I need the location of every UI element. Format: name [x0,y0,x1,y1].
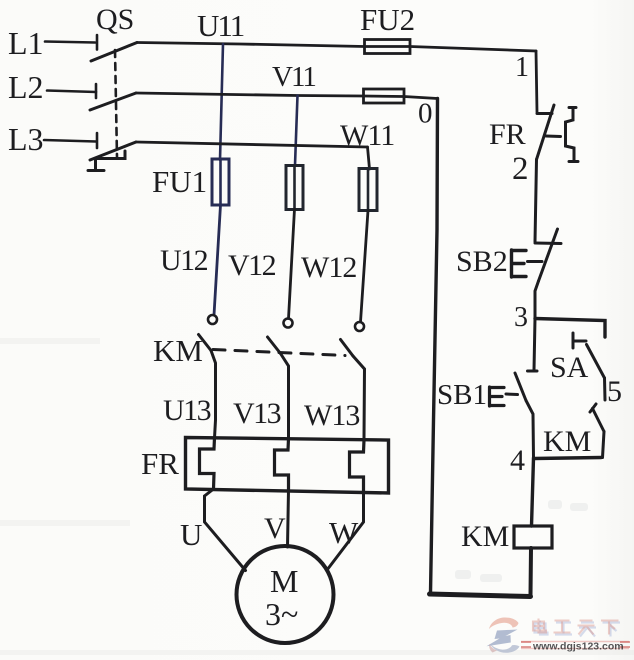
relay FR heater element W [350,440,365,491]
wire FU2b to corner [404,97,438,99]
watermark logo bottom arc [490,644,520,653]
wire node4 to coil [532,458,534,526]
wire W12 [361,211,369,323]
relay FR contact link dash [546,135,561,139]
svg-text:M: M [270,563,298,599]
svg-text:L1: L1 [8,25,44,61]
wire node3 branch to SA [535,319,605,338]
contactor KM main pole2 blade [268,337,281,354]
svg-text:3: 3 [514,302,528,333]
button SB2 blade [539,229,558,281]
switch QS pole2 blade [90,93,136,110]
svg-text:V11: V11 [272,61,315,93]
svg-text:V13: V13 [233,397,281,430]
watermark char xia [601,621,619,635]
svg-text:3~: 3~ [265,596,298,632]
fuse FU2 lower [364,89,405,103]
svg-text:KM: KM [461,520,509,553]
svg-text:FU2: FU2 [360,2,415,37]
button SB2 fixed tick [535,242,561,246]
wire node3 to SB1 [534,319,535,371]
svg-text:QS: QS [96,3,134,36]
watermark logo blue bolt [487,630,518,647]
watermark char dian [533,619,546,633]
button SB1 actuator E [490,387,505,406]
switch QS pole3 fixed contact [96,133,99,148]
scan smudge upper [455,500,588,582]
wire L1 stub [45,42,95,43]
contactor KM main pole1 terminal [208,315,217,324]
wire W13 [353,356,365,438]
svg-text:L2: L2 [8,69,44,105]
svg-text:V12: V12 [228,249,276,282]
switch QS handle bracket [88,151,125,171]
wire SB2 to node 3 [535,281,539,319]
contactor KM main pole3 terminal [355,322,364,331]
wire node 0 vertical [431,99,438,594]
switch QS pole1 fixed contact [96,35,99,50]
scan streak bands [0,338,634,655]
wire SB1 to node 4 [526,401,534,459]
wire FU2a to corner [410,47,536,52]
coil KM [514,526,552,548]
wire U11 tap [220,44,223,160]
svg-text:FU1: FU1 [152,164,207,199]
svg-text:U: U [180,517,202,552]
wire V12 [289,209,295,319]
wire L2 stub [47,91,96,93]
contact KM aux fixed tick [590,404,596,412]
svg-text:1: 1 [515,52,529,83]
contactor KM main pole2 terminal [284,319,293,328]
svg-text:U11: U11 [197,8,244,43]
wire V13 [281,354,289,439]
svg-text:www.dgjs123.com: www.dgjs123.com [532,641,624,653]
wire U12 [214,205,221,315]
motor M circle [237,546,334,643]
watermark logo top red arc [489,618,519,630]
svg-text:SB1: SB1 [437,379,487,411]
svg-text:KM: KM [543,425,591,458]
wire 2 vertical [535,160,537,242]
svg-text:U13: U13 [163,394,211,427]
wire U to motor [205,489,246,571]
wire node 5 [603,378,607,400]
svg-text:KM: KM [153,333,203,368]
button SB2 actuator E [512,250,527,277]
button SB1 actuator link dash [506,393,518,397]
relay FR contact blade [537,105,555,160]
button SB1 blade [515,373,526,401]
switch QS pole3 blade [90,142,136,160]
svg-text:W13: W13 [304,399,359,432]
switch QS pole2 fixed contact [95,84,98,98]
svg-text:U12: U12 [160,244,208,277]
wire coil to bottom [529,548,534,595]
wire V11 tap [295,96,298,166]
wire node 1 vertical [536,51,537,112]
fuse FU1 phase V [286,166,303,210]
svg-text:V: V [264,512,286,545]
watermark url side bars [521,642,630,647]
switch SA blade [587,345,605,379]
contactor KM main pole3 blade [341,340,354,357]
svg-text:5: 5 [607,375,622,408]
wire L3 to W11 [136,142,368,147]
wire node 4 horizontal [534,458,601,459]
wire L3 stub [44,140,96,142]
fuse FU1 phase U [212,159,229,205]
wire L2 to FU2b [136,93,364,96]
svg-text:4: 4 [510,444,525,477]
wire W to motor [327,491,364,570]
svg-text:W: W [329,515,359,550]
switch QS mechanical link (dashed) [115,50,117,157]
wire W11 tap [368,147,370,169]
watermark url lines [521,642,629,649]
relay FR heater frame [186,438,389,494]
watermark logo red tail [489,644,497,653]
button SB1 fixed tick [528,370,538,373]
switch QS pole1 blade [91,43,137,62]
contact KM aux blade [593,409,605,432]
fuse FU2 upper [365,40,411,54]
relay FR thermal hook [566,108,579,162]
svg-text:SB2: SB2 [456,245,508,278]
svg-text:W12: W12 [301,251,356,284]
wire V to motor [288,490,289,547]
svg-text:0: 0 [418,98,433,130]
button SB2 actuator link dash [528,260,543,263]
svg-text:FR: FR [489,118,526,151]
relay FR heater element U [200,438,215,490]
svg-text:SA: SA [550,351,589,384]
relay FR heater element V [275,439,289,491]
switch SA fixed contact [573,333,586,348]
contactor KM link dashes [213,350,345,356]
watermark text blue shadow [535,621,621,637]
relay FR contact fixed tick [537,112,552,115]
wire U13 [211,351,216,439]
svg-text:L3: L3 [8,121,44,157]
fuse FU1 phase W [359,169,377,211]
svg-text:2: 2 [512,151,529,187]
svg-text:FR: FR [141,446,179,481]
watermark char gong [554,621,571,633]
contactor KM main pole1 blade [199,335,212,351]
watermark char tian [578,621,595,635]
wire bottom return [430,594,531,597]
wire KM aux to node 4 [603,432,605,458]
wire L1 to FU2a [137,43,365,47]
